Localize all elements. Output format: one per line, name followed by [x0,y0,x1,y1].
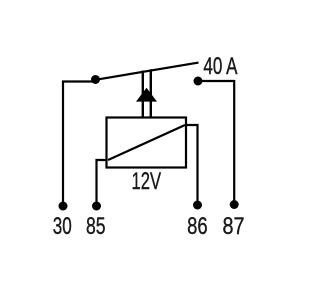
svg-text:30: 30 [53,213,72,240]
svg-text:87: 87 [223,213,245,240]
svg-text:40 A: 40 A [203,53,237,80]
svg-text:12V: 12V [132,168,162,195]
svg-text:85: 85 [86,213,106,240]
svg-text:86: 86 [187,213,208,240]
